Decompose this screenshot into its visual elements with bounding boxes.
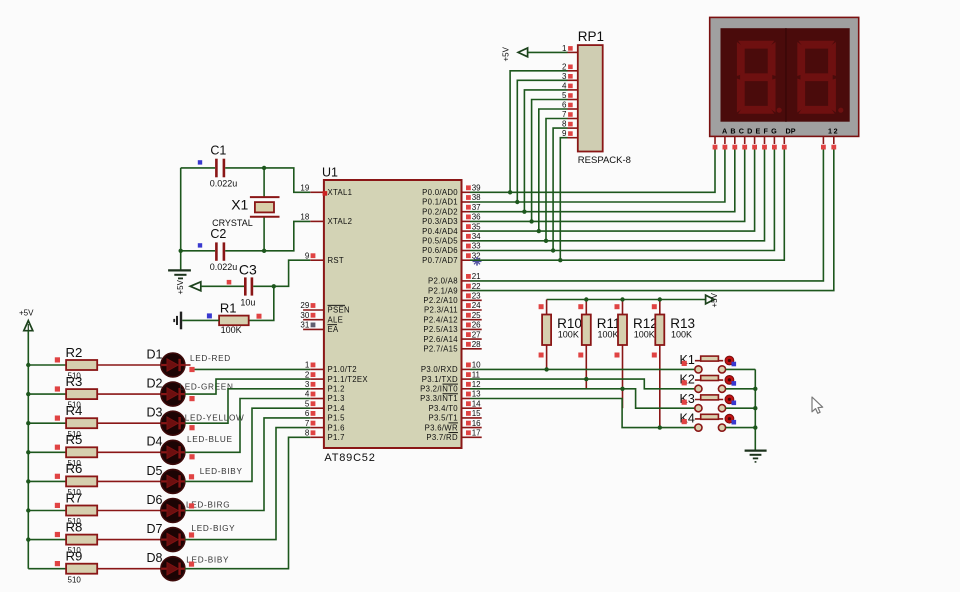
svg-text:9: 9 bbox=[562, 129, 567, 138]
LED D7 actuation marker bbox=[189, 532, 194, 537]
wire P3.0 to K1 bbox=[470, 368, 695, 370]
LED D1 actuation marker bbox=[189, 367, 194, 372]
wire rail to R8 bbox=[28, 539, 66, 541]
wire P0.5 to display F bbox=[470, 150, 765, 241]
node P0.1 junction bbox=[515, 200, 519, 204]
resistor R6 bbox=[55, 461, 97, 497]
wire R2 to D1 bbox=[97, 364, 161, 366]
wire RP1 pin4 to P0.2 bbox=[524, 90, 567, 212]
wire D2 to P1.1 bbox=[185, 379, 310, 394]
wire C1 row to XTAL1 bbox=[181, 167, 215, 169]
LED D5 bbox=[147, 464, 243, 494]
svg-text:DP: DP bbox=[786, 126, 796, 135]
capacitor C1 bbox=[198, 144, 237, 189]
LED D6 bbox=[147, 493, 231, 523]
resistor R8 bbox=[55, 519, 97, 555]
wire K3 to bus bbox=[726, 407, 756, 409]
svg-text:17: 17 bbox=[472, 429, 481, 438]
wire D4 to P1.3 bbox=[185, 399, 310, 453]
svg-text:P1.7: P1.7 bbox=[328, 433, 345, 442]
svg-text:26: 26 bbox=[472, 321, 481, 330]
resistor R2 bbox=[55, 345, 97, 381]
wire rail to R2 bbox=[28, 364, 66, 366]
resistor R7 bbox=[55, 490, 97, 526]
LED D2 actuation marker bbox=[189, 396, 194, 401]
svg-text:37: 37 bbox=[472, 203, 481, 212]
svg-text:R3: R3 bbox=[66, 374, 83, 389]
node rail row 3 bbox=[26, 421, 30, 425]
svg-text:P0.0/AD0: P0.0/AD0 bbox=[422, 188, 458, 197]
node R13 bottom bbox=[658, 425, 662, 429]
svg-text:D7: D7 bbox=[147, 522, 163, 536]
svg-text:X1: X1 bbox=[231, 197, 248, 213]
wire rail to R6 bbox=[28, 480, 66, 482]
wire P2.0 to display pin 1 bbox=[470, 150, 823, 281]
svg-text:0.022u: 0.022u bbox=[210, 179, 238, 189]
wire rail to R3 bbox=[28, 393, 66, 395]
wire D8 to P1.7 bbox=[185, 437, 310, 568]
node P0.2 junction bbox=[522, 210, 526, 214]
svg-text:5: 5 bbox=[305, 399, 310, 408]
button K1 bbox=[680, 353, 737, 373]
svg-text:XTAL2: XTAL2 bbox=[328, 217, 353, 226]
svg-text:P3.4/T0: P3.4/T0 bbox=[428, 404, 458, 413]
wire P3.1 to K2 bbox=[470, 379, 695, 389]
svg-text:LED-RED: LED-RED bbox=[190, 354, 231, 363]
RP1 pin stubs and numbers bbox=[562, 44, 578, 138]
U1 left pin stubs bbox=[303, 192, 324, 437]
svg-text:8: 8 bbox=[305, 429, 310, 438]
node P0.0 junction bbox=[508, 190, 512, 194]
wire ground rail C1/C2 bbox=[180, 168, 182, 270]
resistor R1 bbox=[207, 300, 262, 335]
LED D2 bbox=[147, 377, 234, 407]
wire P0.6 to display G bbox=[470, 150, 774, 251]
svg-text:13: 13 bbox=[472, 390, 481, 399]
U1 XTAL1 red marker bbox=[323, 191, 328, 196]
node C2/X1 junction bbox=[262, 249, 266, 253]
svg-text:P1.5: P1.5 bbox=[328, 414, 346, 423]
svg-text:+5V: +5V bbox=[502, 46, 511, 61]
wire P0.3 to display D bbox=[470, 150, 745, 222]
wire P0.4 to display E bbox=[470, 150, 755, 232]
svg-text:36: 36 bbox=[472, 213, 481, 222]
node rail row 1 bbox=[26, 363, 30, 367]
capacitor C2 bbox=[198, 227, 237, 272]
svg-text:1: 1 bbox=[305, 361, 310, 370]
LED D4 bbox=[147, 435, 233, 465]
svg-text:2: 2 bbox=[562, 62, 567, 71]
svg-text:6: 6 bbox=[562, 101, 567, 110]
svg-text:P1.4: P1.4 bbox=[328, 404, 346, 413]
ground bottom right bbox=[745, 451, 767, 462]
svg-text:R2: R2 bbox=[66, 345, 83, 360]
ground at R1 (rotated) bbox=[174, 312, 181, 330]
node rail row 6 bbox=[26, 508, 30, 512]
U1 right pin stubs bbox=[462, 192, 482, 437]
svg-text:P0.1/AD1: P0.1/AD1 bbox=[422, 198, 458, 207]
svg-text:XTAL1: XTAL1 bbox=[328, 188, 353, 197]
svg-text:34: 34 bbox=[472, 232, 481, 241]
node marker at pin 32 bbox=[473, 257, 482, 266]
svg-text:5: 5 bbox=[562, 91, 567, 100]
svg-text:100K: 100K bbox=[598, 329, 619, 339]
svg-text:28: 28 bbox=[472, 340, 481, 349]
svg-text:25: 25 bbox=[472, 311, 481, 320]
node rail R12 bbox=[620, 297, 624, 301]
wire P0.2 to display C bbox=[470, 150, 735, 212]
wire RP1 pin8 to P0.6 bbox=[553, 128, 567, 250]
svg-text:6: 6 bbox=[305, 409, 310, 418]
svg-text:100K: 100K bbox=[558, 329, 579, 339]
svg-text:U1: U1 bbox=[322, 166, 338, 180]
power flag +5V right bbox=[706, 292, 720, 307]
svg-text:P2.3/A11: P2.3/A11 bbox=[424, 306, 458, 315]
capacitor C3 bbox=[227, 262, 257, 308]
resistor R11 bbox=[578, 300, 620, 389]
svg-text:ALE: ALE bbox=[328, 315, 344, 324]
svg-text:P3.7/RD: P3.7/RD bbox=[426, 433, 458, 442]
svg-text:11: 11 bbox=[472, 370, 481, 379]
node P0.3 junction bbox=[529, 219, 533, 223]
svg-text:7: 7 bbox=[305, 419, 310, 428]
svg-text:29: 29 bbox=[300, 301, 309, 310]
wire C2 row to XTAL2 bbox=[181, 250, 215, 252]
svg-text:P3.1/TXD: P3.1/TXD bbox=[422, 375, 458, 384]
wire RP1 pin6 to P0.4 bbox=[539, 109, 568, 231]
resistor R9 bbox=[55, 549, 97, 585]
svg-text:14: 14 bbox=[472, 399, 481, 408]
svg-text:EA: EA bbox=[328, 325, 340, 334]
svg-text:P3.6/WR: P3.6/WR bbox=[425, 423, 458, 432]
svg-text:P1.2: P1.2 bbox=[328, 385, 345, 394]
U1 right pin names bbox=[420, 188, 458, 442]
svg-text:38: 38 bbox=[472, 193, 481, 202]
wire RP1 pin5 to P0.3 bbox=[532, 100, 568, 222]
svg-text:22: 22 bbox=[472, 282, 481, 291]
wire K2 to bus bbox=[726, 388, 756, 390]
svg-text:10: 10 bbox=[472, 361, 481, 370]
svg-text:4: 4 bbox=[305, 390, 310, 399]
svg-text:+5V: +5V bbox=[176, 279, 185, 294]
svg-text:C3: C3 bbox=[239, 262, 257, 278]
svg-text:P1.1/T2EX: P1.1/T2EX bbox=[328, 375, 369, 384]
svg-text:12: 12 bbox=[828, 126, 839, 135]
svg-text:+5V: +5V bbox=[19, 308, 34, 317]
wire RP1 pin2 to P0.0 bbox=[510, 71, 567, 193]
wire R3 to D2 bbox=[97, 393, 161, 395]
LED D8 actuation marker bbox=[189, 562, 194, 567]
node P0.6 junction bbox=[551, 248, 555, 252]
svg-text:P0.5/AD5: P0.5/AD5 bbox=[422, 237, 458, 246]
svg-text:RESPACK-8: RESPACK-8 bbox=[578, 155, 631, 166]
svg-text:C2: C2 bbox=[210, 227, 226, 241]
wire rail to R7 bbox=[28, 510, 66, 512]
svg-text:P2.1/A9: P2.1/A9 bbox=[428, 286, 458, 295]
svg-text:P3.2/INT0: P3.2/INT0 bbox=[420, 385, 458, 394]
node R10 bottom bbox=[544, 367, 548, 371]
svg-text:21: 21 bbox=[472, 272, 481, 281]
resistor R13 bbox=[652, 300, 695, 428]
wire rail to R5 bbox=[28, 451, 66, 453]
LED D1 bbox=[147, 347, 231, 377]
svg-text:2: 2 bbox=[305, 370, 310, 379]
U1 left pin numbers bbox=[300, 184, 315, 438]
node R11 bottom bbox=[584, 377, 588, 381]
svg-text:12: 12 bbox=[472, 380, 481, 389]
node bus K2 bbox=[753, 387, 757, 391]
wire K4 to bus bbox=[726, 427, 756, 429]
svg-text:P1.3: P1.3 bbox=[328, 394, 345, 403]
svg-text:7: 7 bbox=[562, 110, 567, 119]
svg-text:LED-YELLOW: LED-YELLOW bbox=[185, 414, 245, 423]
svg-text:RP1: RP1 bbox=[578, 29, 604, 44]
svg-text:15: 15 bbox=[472, 409, 481, 418]
wire +5V rail R10-R13 bbox=[547, 299, 706, 301]
LED D3 bbox=[147, 406, 245, 436]
wire R8 to D7 bbox=[97, 539, 161, 541]
svg-text:P2.4/A12: P2.4/A12 bbox=[423, 315, 457, 324]
wire +5V to C3 bbox=[201, 285, 244, 287]
svg-text:R1: R1 bbox=[220, 300, 237, 315]
wire D7 to P1.6 bbox=[185, 428, 310, 540]
wire R7 to D6 bbox=[97, 510, 161, 512]
node C3/R1/RST junction bbox=[272, 284, 276, 288]
svg-text:33: 33 bbox=[472, 242, 481, 251]
svg-text:23: 23 bbox=[472, 292, 481, 301]
wire R4 to D3 bbox=[97, 422, 161, 424]
svg-text:R6: R6 bbox=[66, 461, 83, 476]
7seg left digit bbox=[737, 41, 776, 114]
svg-text:D2: D2 bbox=[147, 377, 163, 391]
resistor R12 bbox=[615, 300, 658, 409]
wire P3.3 to K4 bbox=[470, 399, 695, 428]
svg-text:ABCDEFG: ABCDEFG bbox=[722, 126, 780, 135]
wire ground bus bbox=[754, 369, 756, 450]
node P0.4 junction bbox=[537, 229, 541, 233]
svg-text:P2.2/A10: P2.2/A10 bbox=[423, 296, 458, 305]
svg-text:510: 510 bbox=[68, 575, 82, 584]
svg-text:P3.3/INT1: P3.3/INT1 bbox=[420, 394, 458, 403]
svg-text:24: 24 bbox=[472, 301, 481, 310]
svg-text:P2.6/A14: P2.6/A14 bbox=[423, 335, 458, 344]
button K4 bbox=[680, 411, 737, 431]
node rail R11 bbox=[584, 297, 588, 301]
svg-text:0.022u: 0.022u bbox=[210, 262, 238, 272]
svg-text:39: 39 bbox=[472, 184, 481, 193]
LED D4 actuation marker bbox=[189, 454, 194, 459]
svg-text:P0.4/AD4: P0.4/AD4 bbox=[422, 227, 458, 236]
svg-text:R9: R9 bbox=[66, 549, 83, 564]
wire rail to R9 bbox=[28, 568, 66, 570]
ground below C2 rail bbox=[168, 270, 191, 278]
resistor R5 bbox=[55, 432, 97, 468]
svg-text:16: 16 bbox=[472, 419, 481, 428]
svg-text:P3.0/RXD: P3.0/RXD bbox=[421, 365, 458, 374]
svg-text:18: 18 bbox=[300, 213, 309, 222]
wire RP1 pin9 to P0.7 bbox=[560, 138, 567, 261]
node bus K3 bbox=[753, 406, 757, 410]
U1 right pin numbers bbox=[466, 184, 481, 438]
svg-text:P2.5/A13: P2.5/A13 bbox=[423, 325, 457, 334]
node rail row 7 bbox=[26, 537, 30, 541]
svg-text:LED-BIBY: LED-BIBY bbox=[200, 467, 243, 476]
node P0.5 junction bbox=[544, 239, 548, 243]
svg-text:3: 3 bbox=[562, 72, 567, 81]
svg-text:35: 35 bbox=[472, 222, 481, 231]
svg-text:LED-BLUE: LED-BLUE bbox=[187, 435, 233, 444]
node R12 bottom bbox=[620, 387, 624, 391]
IC U1 AT89C52 microcontroller body bbox=[322, 166, 462, 465]
wire C3 to RST bbox=[253, 285, 274, 287]
node rail row 2 bbox=[26, 392, 30, 396]
LED D7 bbox=[147, 522, 236, 552]
svg-text:3: 3 bbox=[305, 380, 310, 389]
svg-text:R4: R4 bbox=[66, 403, 83, 418]
wire R6 to D5 bbox=[97, 480, 161, 482]
wire junction down to R1 bbox=[249, 286, 274, 320]
svg-text:9: 9 bbox=[305, 251, 310, 260]
wire RP1 pin3 to P0.1 bbox=[517, 80, 567, 202]
LED D5 actuation marker bbox=[189, 474, 194, 479]
wire +5V rail bbox=[27, 331, 29, 569]
svg-text:LED-BIGY: LED-BIGY bbox=[192, 524, 236, 533]
resistor pack RP1 RESPACK-8 bbox=[578, 29, 631, 166]
wire D5 to P1.4 bbox=[185, 408, 310, 481]
power flag +5V at RP1 pin 1 bbox=[502, 46, 528, 61]
svg-text:27: 27 bbox=[472, 330, 481, 339]
svg-text:P1.0/T2: P1.0/T2 bbox=[328, 365, 357, 374]
node rail row 5 bbox=[26, 479, 30, 483]
wire R9 to D8 bbox=[97, 568, 161, 570]
crystal X1 bbox=[212, 168, 279, 251]
svg-text:R7: R7 bbox=[66, 490, 83, 505]
node P0.7 junction bbox=[558, 258, 562, 262]
svg-text:P2.7/A15: P2.7/A15 bbox=[423, 345, 458, 354]
svg-text:D5: D5 bbox=[147, 464, 163, 478]
svg-text:30: 30 bbox=[300, 311, 309, 320]
display pin stubs bbox=[713, 136, 837, 149]
svg-text:D3: D3 bbox=[147, 406, 163, 420]
power flag +5V at C3 bbox=[176, 279, 201, 294]
resistor R3 bbox=[55, 374, 97, 410]
wire rail to R4 bbox=[28, 422, 66, 424]
svg-text:4: 4 bbox=[562, 81, 567, 90]
LED D3 actuation marker bbox=[189, 425, 194, 430]
svg-text:+5V: +5V bbox=[710, 292, 719, 307]
button K2 bbox=[680, 373, 737, 393]
svg-text:P0.7/AD7: P0.7/AD7 bbox=[422, 256, 458, 265]
wire R1 to ground bbox=[182, 319, 219, 321]
svg-text:RST: RST bbox=[328, 256, 345, 265]
wire K1 to bus bbox=[726, 368, 756, 370]
svg-text:P2.0/A8: P2.0/A8 bbox=[428, 277, 458, 286]
wire RP1 pin7 to P0.5 bbox=[546, 119, 568, 241]
svg-text:1: 1 bbox=[562, 44, 567, 53]
svg-text:D1: D1 bbox=[147, 347, 163, 361]
svg-text:100K: 100K bbox=[221, 325, 242, 335]
wire P0.7 to display DP bbox=[470, 150, 784, 261]
svg-text:C1: C1 bbox=[210, 144, 226, 158]
resistor R10 bbox=[539, 300, 582, 370]
7-segment dual display bbox=[710, 17, 859, 136]
wire P0.1 to display B bbox=[470, 150, 725, 203]
svg-text:10u: 10u bbox=[240, 298, 255, 308]
wire P0.0 to display A bbox=[470, 150, 715, 193]
button K3 bbox=[680, 392, 737, 412]
power flag +5V LED rail bbox=[19, 308, 34, 330]
LED D6 actuation marker bbox=[189, 503, 194, 508]
svg-text:19: 19 bbox=[300, 184, 309, 193]
svg-text:LED-GREEN: LED-GREEN bbox=[180, 383, 234, 392]
svg-text:8: 8 bbox=[562, 120, 567, 129]
svg-text:31: 31 bbox=[300, 321, 309, 330]
wire RP1 pin1 to +5V bbox=[528, 51, 568, 53]
wire R5 to D4 bbox=[97, 451, 161, 453]
node C1/X1 junction bbox=[262, 166, 266, 170]
node rail R13 bbox=[658, 297, 662, 301]
svg-text:R5: R5 bbox=[66, 432, 83, 447]
wire P3.2 to K3 bbox=[470, 389, 695, 408]
svg-text:PSEN: PSEN bbox=[328, 306, 350, 315]
svg-text:100K: 100K bbox=[634, 329, 655, 339]
svg-text:P0.3/AD3: P0.3/AD3 bbox=[422, 217, 458, 226]
wire D1 to P1.0 bbox=[185, 364, 191, 366]
svg-text:P1.6: P1.6 bbox=[328, 423, 345, 432]
U1 left pin names bbox=[328, 188, 369, 442]
7seg right digit bbox=[797, 41, 836, 114]
svg-text:P3.5/T1: P3.5/T1 bbox=[428, 414, 457, 423]
svg-text:D4: D4 bbox=[147, 435, 163, 449]
wire D3 to P1.2 bbox=[185, 389, 310, 423]
LED D8 bbox=[147, 551, 230, 581]
svg-text:D8: D8 bbox=[147, 551, 163, 565]
resistor R4 bbox=[55, 403, 97, 439]
svg-text:D6: D6 bbox=[147, 493, 163, 507]
mouse cursor bbox=[812, 397, 823, 413]
svg-text:100K: 100K bbox=[671, 329, 692, 339]
wire P2.1 to display pin 2 bbox=[470, 150, 834, 291]
svg-text:R8: R8 bbox=[66, 519, 83, 534]
node bus K4 bbox=[753, 425, 757, 429]
svg-text:P0.2/AD2: P0.2/AD2 bbox=[422, 207, 458, 216]
node rail row 4 bbox=[26, 450, 30, 454]
wire D6 to P1.5 bbox=[185, 418, 310, 511]
svg-text:AT89C52: AT89C52 bbox=[324, 452, 375, 464]
svg-text:P0.6/AD6: P0.6/AD6 bbox=[422, 246, 458, 255]
